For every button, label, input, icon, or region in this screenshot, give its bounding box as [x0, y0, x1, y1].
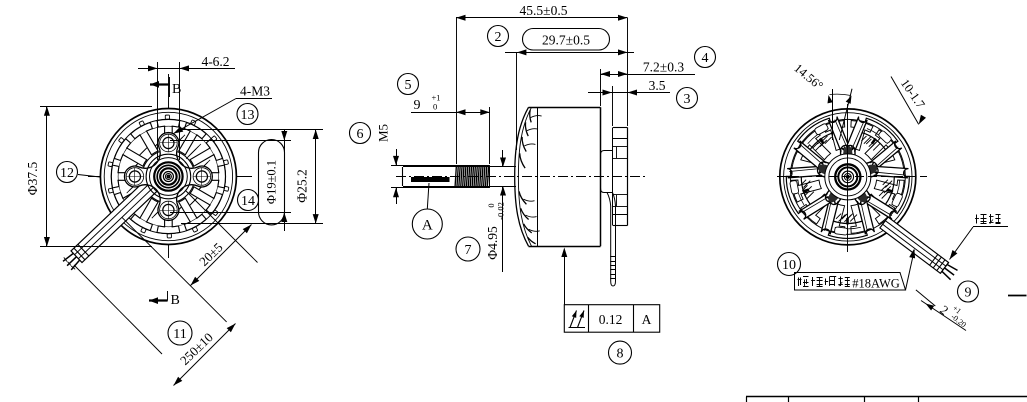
- balloon 3: [677, 88, 698, 109]
- extension line mount right face: [627, 18, 629, 126]
- section mark B bottom: [149, 291, 180, 308]
- dimension dia19 extension lines: [170, 141, 291, 213]
- leader to tolerance frame: [561, 248, 567, 305]
- balloon 10: [778, 253, 801, 276]
- extension line 3.5 left: [612, 86, 614, 126]
- dimension dia25.2: [295, 130, 319, 224]
- dimension dia4.95 text: [485, 202, 506, 260]
- side view centerline: [396, 176, 648, 178]
- svg-text:4-M3: 4-M3: [240, 84, 270, 99]
- front view clover mount plate: [124, 133, 212, 221]
- extension line thread start: [456, 18, 458, 164]
- front view wire tips: [63, 244, 89, 270]
- svg-text:A: A: [422, 218, 433, 234]
- extension line body right face: [600, 69, 602, 106]
- oblique reference line through clover: [186, 191, 258, 263]
- label tinned with leader: [950, 214, 1009, 260]
- front view shaft center rings: [154, 162, 182, 190]
- front view magnet ring notches: [108, 115, 229, 238]
- svg-text:B: B: [172, 82, 181, 97]
- front view 4-M3 mounting holes: [126, 134, 211, 219]
- svg-text:4: 4: [702, 51, 709, 66]
- svg-text:9: 9: [965, 285, 972, 300]
- rear view vertical centerline: [847, 104, 849, 252]
- front view motor can inner circle: [104, 112, 232, 240]
- dimension dia37.5: [25, 106, 50, 246]
- front view vertical centerline: [168, 74, 170, 258]
- svg-text:29.7±0.5: 29.7±0.5: [542, 33, 590, 48]
- balloon 14: [238, 190, 259, 211]
- rear view can outer circle: [780, 109, 916, 245]
- svg-text:Φ4.95: Φ4.95: [485, 226, 500, 260]
- svg-text:10-1.7: 10-1.7: [898, 76, 928, 110]
- svg-text:8: 8: [617, 346, 624, 361]
- svg-text:7.2±0.3: 7.2±0.3: [643, 60, 684, 75]
- rear view rotor spokes: [787, 117, 908, 235]
- svg-text:6: 6: [357, 127, 364, 142]
- rear view horizontal centerline: [777, 176, 927, 178]
- front view stator outer circle: [111, 119, 225, 233]
- front view wire sleeve: [71, 178, 159, 263]
- balloon 6: [350, 123, 371, 144]
- svg-text:7: 7: [465, 243, 472, 258]
- shaft: [403, 167, 517, 187]
- motor bell front profile: [515, 107, 532, 246]
- front view bearing boss circles: [146, 154, 191, 199]
- balloon 2: [488, 26, 509, 47]
- title block table top edge: [746, 397, 1027, 402]
- dimension 2 +1/-0.20: [916, 290, 968, 331]
- front view motor can outer circle: [100, 109, 236, 245]
- dimension 45.5+-0.5: [456, 3, 628, 21]
- section mark B top: [150, 77, 181, 97]
- front view stator bore circle: [142, 150, 195, 203]
- rear view magnet windows: [786, 118, 909, 238]
- rear view stator pattern behind spokes: [790, 119, 905, 234]
- svg-text:2: 2: [495, 30, 502, 45]
- dimension dia19 line: [281, 130, 287, 232]
- svg-text:A: A: [642, 312, 652, 327]
- label 10-1.7 with leader: [891, 76, 928, 124]
- balloon 12 with leader: [57, 162, 101, 183]
- front view horizontal centerline: [88, 176, 252, 178]
- svg-text:-0.20: -0.20: [949, 312, 968, 329]
- balloon 13: [237, 104, 258, 125]
- extension line bell front: [516, 52, 518, 150]
- svg-text:14: 14: [241, 194, 255, 209]
- svg-text:-0.02: -0.02: [496, 202, 506, 220]
- shaft flat datum target bar: [411, 177, 450, 182]
- svg-text:12: 12: [60, 166, 74, 181]
- geometric tolerance frame: [564, 305, 659, 333]
- svg-text:11: 11: [173, 327, 186, 342]
- front view tooth head inner circle: [118, 126, 219, 227]
- balloon 7: [456, 237, 480, 261]
- dimension 4-6.2 extension lines: [158, 62, 180, 160]
- svg-text:M5: M5: [376, 124, 391, 142]
- dimension 4-6.2: [138, 54, 235, 72]
- rear view can inner circle: [784, 113, 912, 241]
- drawing frame centre mark right edge: [1008, 295, 1027, 297]
- dimension dia25.2 extension lines: [181, 130, 323, 224]
- motor body outline: [529, 107, 601, 246]
- svg-text:10: 10: [782, 258, 796, 273]
- svg-text:45.5±0.5: 45.5±0.5: [520, 3, 568, 18]
- dimension 250+-10: [174, 324, 236, 386]
- dimension 7.2+-0.3: [601, 60, 696, 78]
- svg-text:B: B: [171, 293, 180, 308]
- side view lead wire: [607, 193, 616, 287]
- dimension 20+-5: [191, 225, 252, 286]
- balloon 8: [609, 341, 632, 364]
- dimension 20+-5 extension line B: [74, 265, 162, 354]
- dimension 9 +1/0: [411, 93, 490, 116]
- rear mount stepped profile: [601, 128, 628, 226]
- dimension 29.7+-0.5: [505, 29, 634, 56]
- svg-text:Φ19±0.1: Φ19±0.1: [265, 160, 279, 204]
- balloon 5: [398, 74, 419, 95]
- front view stator teeth: [111, 119, 225, 233]
- M5 extension lines: [391, 166, 456, 188]
- angle 14.56 reference lines: [833, 89, 853, 140]
- M5 threaded section: [455, 165, 490, 187]
- dimension dia37.5 extension lines: [40, 107, 152, 247]
- balloon 9: [958, 281, 979, 302]
- label soft silicone wire #18AWG with leader: [795, 249, 916, 291]
- balloon 11: [168, 321, 192, 345]
- svg-text:4-6.2: 4-6.2: [201, 54, 229, 69]
- dimension dia4.95 arrows: [500, 150, 506, 272]
- rear view hub circles: [825, 154, 871, 200]
- svg-text:#18AWG: #18AWG: [852, 277, 900, 291]
- svg-text:0: 0: [486, 203, 496, 207]
- svg-text:5: 5: [405, 78, 412, 93]
- bell vent blades: [519, 110, 542, 244]
- dimension 3.5: [588, 78, 670, 96]
- dimension dia19 capsule label: [259, 140, 285, 225]
- balloon 4: [695, 47, 716, 68]
- dimension M5: [376, 124, 400, 204]
- svg-text:20±5: 20±5: [196, 240, 226, 269]
- extension line thread end: [489, 107, 491, 164]
- svg-text:0: 0: [433, 102, 437, 112]
- angle 14.56 arc: [791, 61, 851, 104]
- svg-text:0.12: 0.12: [599, 312, 623, 327]
- svg-text:13: 13: [241, 108, 255, 123]
- svg-text:Φ25.2: Φ25.2: [295, 169, 310, 203]
- svg-text:3.5: 3.5: [649, 78, 666, 93]
- datum A: [412, 183, 442, 239]
- svg-text:3: 3: [684, 92, 691, 107]
- rear view lead wire sleeve with tinned tips: [880, 217, 958, 280]
- label 4-M3 with leader: [174, 84, 273, 134]
- dimension 20+-5 extension line A: [122, 217, 227, 322]
- svg-text:14.56°: 14.56°: [791, 61, 825, 93]
- front view stator hatch lines: [127, 135, 210, 218]
- svg-text:9: 9: [414, 98, 421, 113]
- svg-text:Φ37.5: Φ37.5: [25, 162, 40, 196]
